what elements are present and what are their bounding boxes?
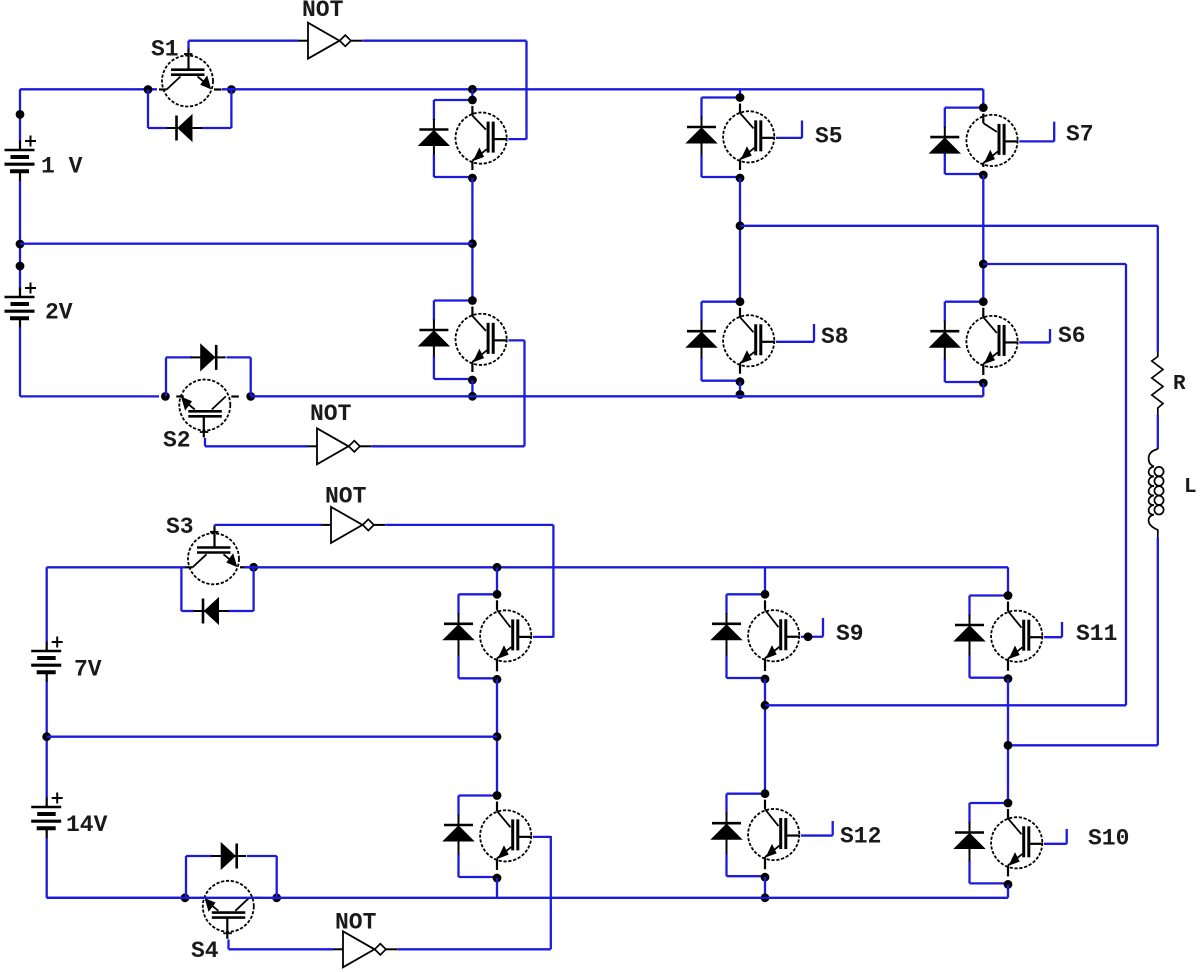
wire midpoint to right vertical [765, 704, 1126, 706]
svg-text:NOT: NOT [302, 0, 344, 23]
node S1 right terminal [227, 85, 236, 94]
wire NOT U2 output vertical [523, 340, 525, 446]
node S3 right terminal [249, 563, 258, 572]
wire S3 left terminal to battery column [47, 566, 185, 568]
wire right leg bottom corner [982, 383, 984, 396]
switch S2 body [163, 380, 239, 454]
diode D-S1 [167, 115, 202, 141]
battery 1 V [5, 136, 83, 182]
wire S1 gate to NOT [187, 41, 189, 49]
svg-text:14V: 14V [66, 812, 108, 838]
wire right leg bottom corner (bottom half) [1007, 884, 1009, 897]
node S2 left terminal [161, 392, 170, 401]
wire middle leg top drop [739, 89, 741, 98]
wire right leg between cells (bottom half) [1007, 679, 1009, 805]
node left leg midpoint (bottom half) [493, 732, 502, 741]
node S1 left terminal [144, 85, 153, 94]
node left leg midpoint [468, 239, 477, 248]
IGBT cell Q-D (gate from U4) [444, 791, 551, 882]
wire NOT U1 output to IGBT gate [363, 40, 527, 42]
wire NOT U4 output vertical [550, 836, 552, 949]
wire 14V to S4 [46, 838, 48, 898]
svg-text:S9: S9 [836, 621, 864, 647]
node mid-rail junction bottom half [42, 732, 51, 741]
NOT gate U2 [308, 401, 372, 464]
IGBT cell Q-A (gate from U1) [419, 96, 527, 183]
wire top rail [222, 88, 983, 90]
wire NOT U2 output [372, 445, 525, 447]
switch S3 body [166, 514, 248, 584]
wire left leg top drop (bottom half) [496, 567, 498, 595]
wire middle leg bottom [739, 382, 741, 397]
wire middle leg top drop (bottom half) [764, 567, 766, 595]
svg-text:1 V: 1 V [41, 154, 83, 180]
svg-text:S12: S12 [840, 824, 881, 850]
wire bottom rail (bottom half) [47, 897, 1008, 899]
NOT gate U3 [322, 484, 386, 543]
wire middle leg between cells [739, 178, 741, 303]
IGBT cell S12 [712, 789, 882, 881]
svg-text:S7: S7 [1066, 122, 1094, 148]
wire top rail left segment [20, 88, 157, 90]
wire middle leg bottom (bottom half) [764, 877, 766, 898]
svg-text:S2: S2 [163, 428, 191, 454]
wire S2 diode loop [165, 357, 167, 396]
IGBT cell S8 [687, 297, 849, 386]
wire NOT U3 output [386, 524, 554, 526]
wire S3 diode loop [180, 567, 182, 611]
node mid-rail junction top half [16, 240, 25, 249]
diode D-S3 [194, 598, 229, 624]
node S4 right terminal [272, 893, 281, 902]
wire S2 gate to NOT [204, 438, 206, 446]
wire bottom rail top-half [251, 395, 984, 397]
IGBT cell S11 [955, 591, 1118, 683]
node right leg midpoint (bottom half = load return) [1004, 741, 1013, 750]
wire NOT U4 output [398, 948, 551, 950]
wire mid rail to batteries (bottom half) [47, 736, 497, 738]
battery 14V [31, 793, 107, 839]
wire between batteries [19, 181, 21, 290]
wire right-mid to far right vertical [983, 263, 1126, 265]
wire L to bottom junction [1157, 538, 1159, 746]
node left leg - bottom rail [468, 392, 477, 401]
battery 2V [5, 283, 73, 329]
NOT gate U4 [334, 910, 398, 968]
wire S4 gate to NOT [227, 940, 229, 950]
svg-text:S6: S6 [1058, 323, 1086, 349]
node middle leg midpoint (bottom half) [761, 701, 770, 710]
node top rail - left leg [468, 85, 477, 94]
svg-text:2V: 2V [45, 300, 73, 326]
node middle leg - bottom rail [736, 390, 745, 399]
battery 7V [31, 637, 102, 683]
svg-text:7V: 7V [74, 657, 102, 683]
node S2 right terminal [246, 392, 255, 401]
switch S4 body [191, 881, 262, 964]
wire left column vertical (1V branch) [19, 89, 21, 141]
svg-text:R: R [1173, 373, 1186, 396]
node battery1 top junction [16, 110, 25, 119]
node battery2 top junction [16, 262, 25, 271]
wire bottom-half top rail [244, 566, 1008, 568]
svg-text:S8: S8 [821, 324, 849, 350]
IGBT cell S7 [930, 103, 1094, 179]
IGBT cell S6 [930, 297, 1086, 387]
svg-text:NOT: NOT [310, 401, 352, 427]
wire R to L [1157, 415, 1159, 449]
svg-text:S5: S5 [815, 124, 843, 150]
switch S1 body [151, 37, 222, 107]
wire S3 gate to NOT [213, 525, 215, 526]
diode D-S4 [211, 843, 246, 869]
svg-text:S1: S1 [151, 37, 179, 63]
wire left leg bottom (bottom half) [496, 878, 498, 898]
svg-text:S11: S11 [1076, 621, 1117, 647]
wire S1 diode loop [147, 90, 149, 129]
wire rail corner down to S11 [1007, 567, 1009, 595]
diode D-S2 [191, 344, 226, 370]
wire 7V branch [46, 567, 48, 642]
svg-text:S3: S3 [166, 514, 194, 540]
node S4 left terminal [181, 893, 190, 902]
wire right leg between cells [982, 175, 984, 303]
wire S4 diode loop [185, 856, 187, 898]
node middle leg - bottom rail (bottom half) [761, 893, 770, 902]
wire middle leg between cells (bottom half) [764, 679, 766, 795]
IGBT cell S9 [712, 590, 864, 684]
svg-text:L: L [1184, 476, 1197, 499]
wire left leg between cells [471, 178, 473, 302]
node middle leg midpoint [736, 221, 745, 230]
wire mid rail to batteries [20, 243, 472, 245]
wire load top rail [740, 225, 1158, 227]
svg-text:NOT: NOT [335, 910, 377, 936]
node top rail - left leg (bottom half) [493, 563, 502, 572]
node right leg midpoint [979, 260, 988, 269]
wire battery2 to S2 [19, 327, 21, 396]
wire left leg bottom [471, 380, 473, 396]
wire top rail corner down to S7 [982, 89, 984, 107]
wire left leg top drop [471, 89, 473, 101]
svg-text:S4: S4 [191, 938, 219, 964]
svg-text:NOT: NOT [325, 484, 367, 510]
IGBT cell S10 [955, 799, 1130, 889]
svg-text:S10: S10 [1088, 826, 1129, 852]
resistor R [1152, 353, 1186, 416]
IGBT cell S5 [687, 93, 843, 182]
IGBT cell Q-B (gate from U2) [419, 296, 525, 384]
inductor L [1149, 449, 1197, 538]
IGBT cell Q-C (gate from U3) [444, 590, 554, 684]
NOT gate U1 [299, 0, 363, 59]
wire left leg between cells (bottom half) [496, 679, 498, 796]
wire between 7V and 14V [46, 682, 48, 798]
